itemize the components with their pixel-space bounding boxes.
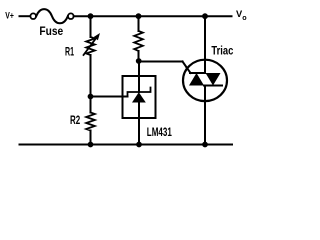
triac gate stub inside circle [187, 67, 191, 73]
svg-text:Fuse: Fuse [39, 24, 63, 38]
svg-text:Triac: Triac [211, 44, 233, 58]
node junction dot R1/R2 [88, 94, 94, 100]
LM431 diode triangle [132, 92, 146, 102]
node junction dot LM431/rail [136, 142, 142, 148]
wire top-left lead [20, 15, 32, 17]
resistor R1 (variable) zigzag [86, 37, 95, 55]
svg-text:R1: R1 [65, 45, 74, 59]
op-amp U1 LM431 box [123, 76, 156, 118]
node Vo label [236, 9, 247, 22]
wire middle resistor top lead [138, 16, 140, 31]
wire R2 bottom lead [90, 131, 92, 145]
node junction dot top of R1 [88, 13, 94, 19]
wire gate horizontal [139, 61, 183, 63]
triac Q1 body circle [183, 60, 227, 101]
triac left triangle [189, 73, 204, 86]
wire gate diagonal [183, 62, 191, 74]
triac MT2 lead [204, 16, 206, 73]
node junction dot top of triac [202, 13, 208, 19]
svg-text:V+: V+ [5, 10, 14, 21]
wire top rail [74, 15, 232, 17]
wire LM431 anode lead [138, 102, 140, 145]
wire bottom rail [20, 144, 233, 146]
svg-text:o: o [242, 13, 247, 22]
triac right triangle [206, 73, 221, 86]
svg-text:R2: R2 [70, 113, 80, 127]
node junction dot gate/cathode [136, 58, 142, 64]
resistor R2 zigzag [86, 113, 95, 131]
R1 wiper arrow [84, 38, 97, 56]
LM431 cathode bar with zener ticks [128, 88, 151, 97]
wire R1 top lead [90, 16, 92, 37]
wire R1 bottom to junction [90, 55, 92, 113]
wire LM431 cathode lead [138, 61, 140, 92]
triac MT1 lead [204, 86, 206, 145]
wire resistor bottom to junction [138, 51, 140, 61]
resistor R3 (bias) zigzag [134, 31, 143, 51]
node junction dot triac/rail [202, 142, 208, 148]
fuse F1 [30, 9, 73, 23]
wire reference to LM431 [91, 96, 128, 98]
triac bottom bar [204, 85, 222, 87]
node junction dot top of middle resistor [136, 13, 142, 19]
svg-text:LM431: LM431 [147, 125, 172, 139]
node junction dot R2/rail [88, 142, 94, 148]
triac top bar [190, 72, 205, 74]
